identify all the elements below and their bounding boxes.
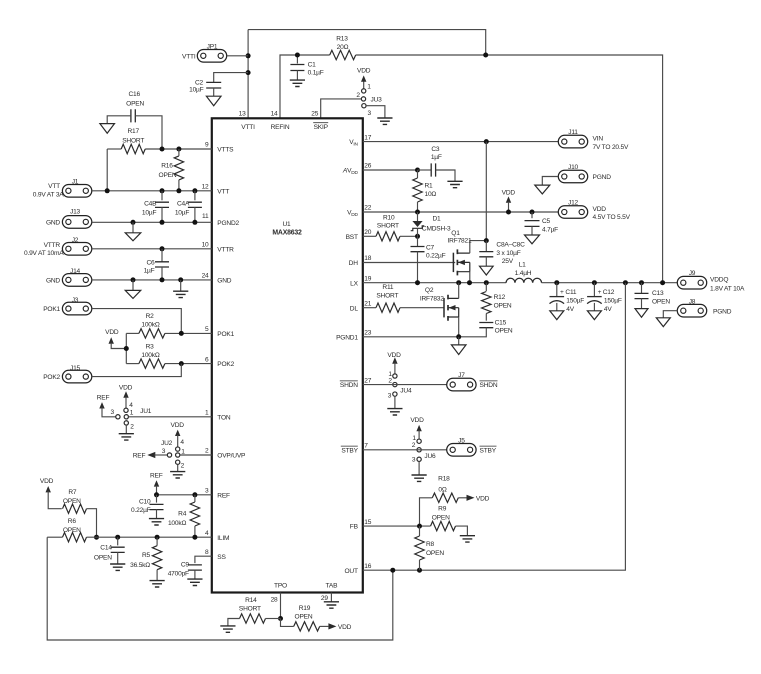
wire PGND1 line: [363, 336, 459, 338]
svg-text:0.22µF: 0.22µF: [426, 252, 446, 259]
svg-text:REF: REF: [217, 492, 230, 499]
svg-text:3: 3: [111, 409, 115, 416]
svg-text:R10: R10: [383, 214, 395, 221]
ground under C14: [110, 564, 125, 570]
node junction JP1-VTTI: [246, 53, 251, 58]
connector J8: [677, 304, 706, 317]
diode D1 CMDSH-3: [417, 212, 419, 221]
svg-text:GND: GND: [46, 220, 60, 227]
node junction J3-POK1: [179, 331, 184, 336]
svg-text:36.5kΩ: 36.5kΩ: [130, 562, 150, 569]
connector J7: [447, 378, 476, 391]
connector J5: [447, 444, 476, 457]
svg-text:4: 4: [180, 439, 184, 446]
svg-text:JP1: JP1: [207, 43, 218, 50]
wire AVDD line: [363, 169, 418, 171]
resistor R10 SHORT: [376, 232, 400, 241]
ground under C5: [525, 235, 540, 244]
wire R7 to ILIM line: [87, 509, 97, 538]
svg-text:3: 3: [205, 488, 209, 495]
svg-text:1: 1: [130, 410, 134, 417]
svg-text:R14: R14: [245, 597, 257, 604]
ground under PGND1: [458, 337, 460, 345]
svg-text:25: 25: [311, 111, 318, 118]
resistor R8 OPEN: [419, 526, 421, 536]
node junction VDD-R2R3: [124, 346, 129, 351]
svg-text:20Ω: 20Ω: [337, 44, 349, 51]
connector J12: [558, 206, 587, 219]
svg-text:PGND: PGND: [713, 308, 732, 315]
svg-text:4V: 4V: [566, 306, 574, 313]
svg-text:24: 24: [202, 273, 209, 280]
svg-text:J8: J8: [689, 299, 696, 306]
supply arrow VDD at R18: [467, 495, 475, 501]
capacitor C6 1µF: [161, 249, 163, 262]
wire ILIM left leg: [47, 536, 62, 538]
capacitor C15 OPEN: [479, 323, 493, 328]
svg-text:OUT: OUT: [344, 568, 357, 575]
svg-text:VDD: VDD: [105, 329, 119, 336]
svg-text:4: 4: [205, 530, 209, 537]
node junction REF-C10: [154, 492, 159, 497]
svg-text:R4: R4: [178, 511, 187, 518]
ground under GND line triangle: [132, 280, 134, 291]
svg-text:R8: R8: [426, 541, 435, 548]
svg-text:Q1: Q1: [451, 230, 460, 237]
ground under JU6: [412, 475, 427, 481]
node junctions VDDQ line: [554, 280, 559, 285]
svg-text:SHORT: SHORT: [377, 223, 399, 230]
svg-text:L1: L1: [519, 262, 526, 269]
wire POK1 line: [126, 332, 139, 334]
svg-text:PGND2: PGND2: [217, 220, 239, 227]
node junction R1-VDD: [415, 210, 420, 215]
svg-text:TON: TON: [217, 414, 231, 421]
wire J3 to POK1 line: [92, 309, 181, 334]
node junctions GND line: [131, 277, 136, 282]
svg-text:+: +: [560, 289, 564, 296]
node junction FB: [417, 524, 422, 529]
connector J14: [62, 274, 91, 287]
svg-text:REF: REF: [150, 472, 163, 479]
svg-text:REF: REF: [97, 395, 110, 402]
svg-text:VDD: VDD: [410, 417, 424, 424]
svg-text:25V: 25V: [502, 258, 514, 265]
capacitor C11 150µF polarized: [556, 283, 558, 297]
svg-text:150µF: 150µF: [566, 298, 584, 305]
resistor R4 100kΩ: [194, 495, 196, 502]
wire OUT feedback rail: [363, 283, 626, 571]
ground under C13: [635, 309, 648, 318]
svg-text:C14: C14: [100, 545, 112, 552]
svg-text:VDD: VDD: [40, 478, 54, 485]
node junction Q1 drain-C8: [484, 238, 489, 243]
svg-text:POK2: POK2: [217, 361, 234, 368]
svg-text:C16: C16: [128, 91, 140, 98]
resistor R5 36.5kΩ: [156, 537, 158, 546]
node junction R1-AVDD: [415, 168, 420, 173]
svg-text:POK1: POK1: [217, 331, 234, 338]
resistor R16 OPEN: [174, 156, 183, 180]
svg-text:R16: R16: [161, 162, 173, 169]
svg-text:J15: J15: [70, 365, 81, 372]
svg-text:3: 3: [368, 110, 372, 117]
node junctions PGND2 line: [131, 220, 136, 225]
ground at R14: [220, 626, 235, 632]
ground under JU2: [170, 472, 185, 478]
svg-text:C2: C2: [195, 79, 204, 86]
svg-text:22: 22: [364, 205, 371, 212]
svg-text:1.4µH: 1.4µH: [515, 270, 532, 277]
svg-text:VDD: VDD: [502, 189, 516, 196]
svg-text:Q2: Q2: [425, 287, 434, 294]
supply arrow VDD at R19: [328, 623, 336, 629]
svg-text:10µF: 10µF: [142, 209, 157, 216]
svg-text:10: 10: [202, 242, 209, 249]
svg-text:OVP/UVP: OVP/UVP: [217, 453, 246, 460]
svg-text:J12: J12: [568, 200, 579, 207]
svg-text:20: 20: [364, 229, 371, 236]
svg-text:OPEN: OPEN: [652, 298, 670, 305]
svg-text:VTTR: VTTR: [44, 242, 61, 249]
wire JU1 pin2 to ground: [125, 425, 127, 434]
capacitor C13 OPEN: [641, 283, 643, 294]
svg-text:J9: J9: [689, 270, 696, 277]
wire R17 left to VTT line: [106, 149, 108, 191]
svg-text:ILIM: ILIM: [217, 535, 229, 542]
transistor Q1 IRF7821: [452, 253, 454, 272]
svg-text:R2: R2: [146, 313, 155, 320]
svg-text:12: 12: [202, 184, 209, 191]
svg-text:0Ω: 0Ω: [438, 486, 446, 493]
wire STBY line: [363, 449, 447, 451]
svg-text:GND: GND: [217, 278, 231, 285]
svg-text:4.5V TO 5.5V: 4.5V TO 5.5V: [593, 214, 631, 221]
wire VDDQ line: [542, 282, 678, 284]
wire REF line: [157, 494, 212, 496]
svg-text:2: 2: [205, 448, 209, 455]
wire TPO stub: [280, 593, 282, 619]
svg-text:VTTI: VTTI: [241, 124, 255, 131]
wire J8 to ground: [663, 311, 677, 318]
svg-text:4: 4: [129, 402, 133, 409]
svg-text:OPEN: OPEN: [495, 328, 513, 335]
svg-text:SHORT: SHORT: [239, 605, 261, 612]
wire R10 to BST node: [400, 235, 418, 237]
node junction C2-VTTI: [246, 70, 251, 75]
svg-text:OPEN: OPEN: [295, 613, 313, 620]
resistor R13 20Ω: [330, 50, 356, 59]
node junctions LX line: [415, 280, 420, 285]
svg-text:JU3: JU3: [371, 96, 383, 103]
wire POK2 line: [126, 363, 139, 365]
svg-text:5: 5: [205, 326, 209, 333]
ground under JU4: [387, 409, 402, 415]
connector J15: [62, 370, 91, 383]
resistor R3 100kΩ: [139, 359, 165, 368]
svg-text:POK1: POK1: [43, 306, 60, 313]
svg-text:LX: LX: [350, 280, 358, 287]
node junction R7-ILIM: [94, 535, 99, 540]
transistor Q2 IRF7832: [443, 298, 445, 317]
svg-text:DL: DL: [350, 305, 359, 312]
node junction OUT-R8: [417, 568, 422, 573]
svg-text:MAX8632: MAX8632: [272, 229, 302, 236]
resistor R17 SHORT: [121, 144, 145, 153]
wire bottom loop: [47, 537, 393, 640]
svg-text:OPEN: OPEN: [94, 554, 112, 561]
node junction OUT-bottom loop: [390, 568, 395, 573]
svg-text:JU1: JU1: [140, 408, 152, 415]
svg-text:C8A–C8C: C8A–C8C: [496, 241, 525, 248]
svg-text:4700pF: 4700pF: [168, 570, 189, 577]
svg-text:100kΩ: 100kΩ: [141, 352, 159, 359]
svg-text:STBY: STBY: [341, 447, 358, 454]
capacitor C8A-C8C 3x10µF: [485, 241, 487, 252]
svg-text:R13: R13: [336, 36, 348, 43]
svg-text:JU6: JU6: [424, 453, 436, 460]
svg-text:14: 14: [271, 111, 278, 118]
svg-text:2: 2: [130, 424, 134, 431]
svg-text:15: 15: [364, 519, 371, 526]
svg-text:3 x 10µF: 3 x 10µF: [496, 250, 520, 257]
svg-text:18: 18: [364, 255, 371, 262]
node junction C14-ILIM: [115, 535, 120, 540]
svg-text:OPEN: OPEN: [432, 514, 450, 521]
wire JU4 pin3 to ground: [394, 396, 396, 408]
node junction REF-R4: [192, 492, 197, 497]
svg-text:17: 17: [364, 134, 371, 141]
svg-text:100kΩ: 100kΩ: [141, 321, 159, 328]
svg-text:R1: R1: [425, 182, 434, 189]
wire VTTI vertical rail: [247, 30, 249, 119]
ground at J8: [656, 318, 670, 327]
svg-text:VDD: VDD: [119, 384, 133, 391]
connector J1: [62, 185, 91, 198]
svg-text:2: 2: [356, 92, 360, 99]
wire DH line: [363, 262, 455, 264]
wire VIN line: [363, 141, 558, 143]
wire BST line: [363, 235, 376, 237]
svg-text:3: 3: [162, 448, 166, 455]
wire R2 left leg: [125, 333, 127, 363]
svg-text:19: 19: [364, 275, 371, 282]
svg-text:SS: SS: [217, 554, 226, 561]
ground under C11: [550, 311, 564, 320]
svg-text:U1: U1: [282, 221, 291, 228]
wire R13 to VDDQ rail: [356, 55, 663, 283]
capacitor C1 0.1µF: [296, 55, 298, 64]
svg-text:R11: R11: [382, 284, 394, 291]
svg-text:R18: R18: [438, 476, 450, 483]
svg-text:J3: J3: [72, 297, 79, 304]
svg-text:VTTS: VTTS: [217, 147, 234, 154]
svg-text:IRF7832: IRF7832: [420, 295, 444, 302]
svg-text:TPO: TPO: [274, 583, 287, 590]
svg-text:C11: C11: [565, 289, 577, 296]
wire TAB stub: [330, 593, 332, 602]
node junction C16-VTTS: [160, 147, 165, 152]
svg-text:0.9V AT 10mA: 0.9V AT 10mA: [24, 250, 64, 257]
ground at R9: [460, 536, 475, 542]
svg-text:PGND1: PGND1: [336, 334, 358, 341]
connector J10: [558, 170, 587, 183]
svg-text:3: 3: [388, 392, 392, 399]
svg-text:4V: 4V: [604, 306, 612, 313]
svg-text:TAB: TAB: [326, 583, 339, 590]
capacitor C16 OPEN: [131, 109, 135, 122]
wire J10 to ground: [542, 177, 558, 185]
wire SS line: [195, 556, 212, 563]
resistor R12 OPEN: [485, 283, 487, 291]
svg-text:28: 28: [271, 597, 278, 604]
svg-text:J1: J1: [72, 178, 79, 185]
svg-text:VIN: VIN: [593, 136, 604, 143]
svg-text:J11: J11: [568, 129, 578, 136]
svg-text:J2: J2: [72, 237, 79, 244]
svg-text:11: 11: [202, 213, 209, 220]
svg-text:SHORT: SHORT: [376, 293, 398, 300]
svg-text:8: 8: [205, 549, 209, 556]
svg-text:21: 21: [364, 300, 371, 307]
wire JU2 pin2 to ground: [177, 464, 179, 471]
connector J3: [62, 302, 91, 315]
svg-text:VDDQ: VDDQ: [710, 277, 728, 284]
svg-text:C9: C9: [181, 561, 190, 568]
jumper JU3: [363, 81, 365, 89]
svg-text:VDD: VDD: [593, 206, 607, 213]
node junction R13-rail: [483, 53, 488, 58]
ground under C12: [587, 311, 601, 320]
ground at J10: [535, 185, 550, 194]
svg-text:JU4: JU4: [400, 387, 412, 394]
ground under C9: [187, 579, 202, 585]
wire JU3 pin3 to ground: [366, 106, 385, 118]
resistor R19 OPEN: [281, 619, 294, 627]
svg-text:J14: J14: [70, 268, 81, 275]
resistor R1 10Ω: [417, 170, 419, 178]
wire GND line: [92, 279, 212, 281]
svg-text:2: 2: [388, 378, 392, 385]
svg-text:VDD: VDD: [387, 352, 401, 359]
svg-text:OPEN: OPEN: [159, 172, 177, 179]
svg-text:9: 9: [205, 142, 209, 149]
svg-text:27: 27: [364, 377, 371, 384]
svg-text:VDD: VDD: [171, 422, 185, 429]
svg-text:C13: C13: [652, 290, 664, 297]
svg-text:VDD: VDD: [338, 624, 352, 631]
svg-text:C1: C1: [308, 61, 317, 68]
node junction R4-ILIM: [192, 535, 197, 540]
svg-text:POK2: POK2: [43, 374, 60, 381]
svg-text:C3: C3: [431, 146, 440, 153]
svg-text:2: 2: [412, 442, 416, 449]
capacitor C9 4700pF: [188, 565, 202, 570]
svg-text:REFIN: REFIN: [271, 124, 290, 131]
svg-text:R7: R7: [68, 489, 77, 496]
svg-text:R17: R17: [127, 128, 139, 135]
svg-text:150µF: 150µF: [604, 298, 622, 305]
svg-text:10Ω: 10Ω: [425, 191, 437, 198]
svg-text:2: 2: [181, 462, 185, 469]
svg-text:1µF: 1µF: [431, 154, 442, 161]
ground under PGND2 line: [132, 222, 134, 233]
svg-text:DH: DH: [349, 260, 359, 267]
capacitor C3 1µF: [418, 169, 432, 171]
svg-text:1: 1: [181, 448, 185, 455]
ground under JU1: [119, 434, 134, 440]
wire JP1 to VTTI rail: [227, 55, 248, 57]
svg-text:C10: C10: [139, 499, 151, 506]
svg-text:1: 1: [205, 410, 209, 417]
resistor R11 SHORT: [376, 303, 400, 312]
wire LX line: [363, 282, 506, 284]
node junction TPO: [278, 616, 283, 621]
svg-text:OPEN: OPEN: [63, 498, 81, 505]
connector J11: [558, 135, 587, 148]
node junction R5-ILIM: [155, 535, 160, 540]
ground at C3: [447, 181, 462, 187]
wire SHDN line: [363, 384, 447, 386]
wire TON line: [128, 416, 211, 418]
svg-text:R19: R19: [299, 605, 311, 612]
svg-text:SHORT: SHORT: [122, 137, 144, 144]
svg-text:R12: R12: [494, 294, 506, 301]
wire JU6 pin3 to ground: [418, 462, 420, 476]
node junction BST-D1-C7: [415, 234, 420, 239]
svg-text:C5: C5: [542, 218, 551, 225]
wire top VTTI-to-VDDQ rail: [248, 30, 486, 55]
wire J15 to POK2 line: [92, 364, 181, 377]
svg-text:OPEN: OPEN: [494, 303, 512, 310]
svg-text:J10: J10: [568, 164, 579, 171]
svg-text:C4A: C4A: [177, 200, 190, 207]
svg-text:VDD: VDD: [357, 67, 371, 74]
ground under JU3: [377, 118, 392, 124]
svg-text:R5: R5: [142, 552, 151, 559]
connector JP1: [197, 50, 226, 63]
node junction C6-VTTR: [160, 246, 165, 251]
wire VTT line: [92, 190, 212, 192]
svg-text:SKIP: SKIP: [314, 124, 329, 131]
svg-text:R3: R3: [146, 343, 155, 350]
svg-text:16: 16: [364, 563, 371, 570]
capacitor C14 OPEN: [117, 537, 119, 545]
capacitor C4A 10µF: [194, 191, 196, 201]
svg-text:SHDN: SHDN: [340, 382, 358, 389]
wire OVP/UVP line: [180, 454, 212, 456]
inductor L1 1.4µH: [506, 278, 541, 282]
node junction R16-VTTS: [176, 147, 181, 152]
resistor R18 0Ω: [420, 498, 433, 526]
svg-text:OPEN: OPEN: [63, 527, 81, 534]
connector J9: [677, 276, 706, 289]
svg-text:4.7µF: 4.7µF: [542, 227, 558, 234]
svg-text:JU2: JU2: [161, 440, 173, 447]
capacitor C10 0.22µF: [156, 495, 158, 503]
svg-text:VTTI: VTTI: [182, 53, 196, 60]
wire FB line: [363, 525, 431, 527]
ground under C1: [290, 80, 305, 86]
svg-text:1µF: 1µF: [144, 267, 155, 274]
svg-text:GND: GND: [46, 278, 60, 285]
node junction J15-POK2: [179, 361, 184, 366]
svg-text:PGND: PGND: [593, 174, 612, 181]
svg-text:7V TO 20.5V: 7V TO 20.5V: [593, 144, 629, 151]
connector J13: [62, 216, 91, 229]
svg-text:D1: D1: [432, 216, 441, 223]
wire ILIM line: [87, 536, 212, 538]
